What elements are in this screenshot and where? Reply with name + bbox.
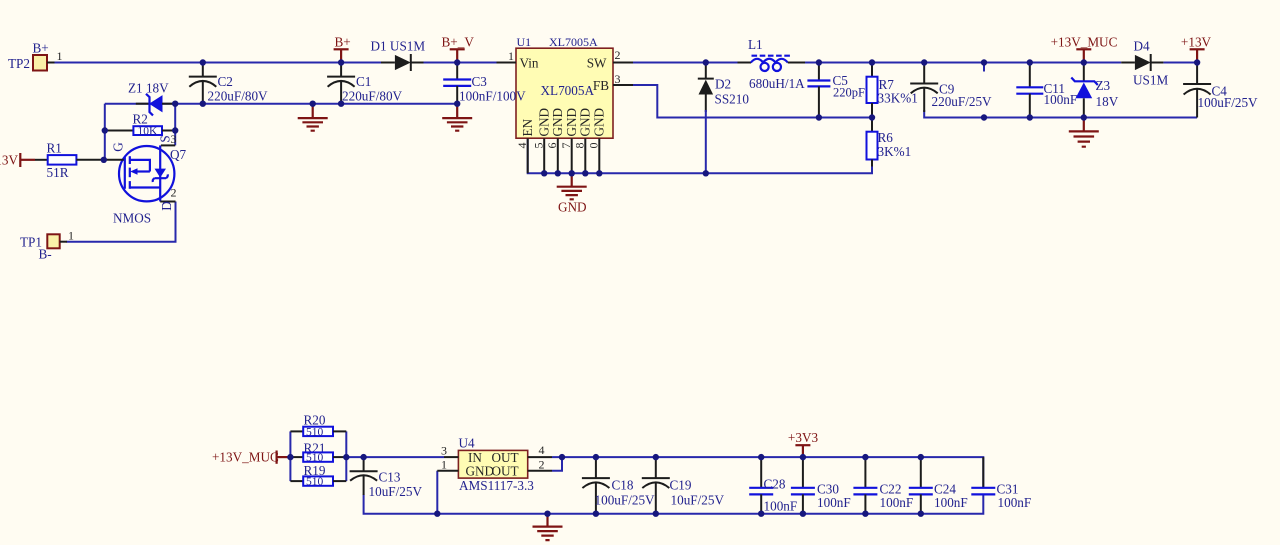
svg-text:0: 0 bbox=[587, 143, 601, 149]
wire: S net vertical Z1 junction to R2 to S pin bbox=[174, 104, 176, 146]
svg-text:100nF: 100nF bbox=[934, 495, 968, 510]
junction (818.9,62.5) bbox=[816, 59, 822, 65]
svg-text:C28: C28 bbox=[764, 477, 786, 492]
resistor R19 bbox=[290, 463, 346, 488]
test point TP1 bbox=[20, 229, 74, 262]
junction (802.9,513.7) bbox=[800, 511, 806, 517]
svg-text:R20: R20 bbox=[304, 413, 326, 428]
zener diode Z3 bbox=[1071, 63, 1118, 118]
svg-text:C3: C3 bbox=[472, 74, 488, 89]
svg-text:R6: R6 bbox=[878, 130, 894, 145]
op-amp U1 XL7005A body bbox=[516, 35, 613, 138]
pin 2 SW bbox=[613, 48, 633, 63]
svg-text:Z3: Z3 bbox=[1096, 78, 1111, 93]
junction (341.1,103.7) bbox=[338, 101, 344, 107]
wire: U4 OUT pin2 up bbox=[552, 457, 562, 471]
junction (802.9,457.1) bbox=[800, 454, 806, 460]
junction (920.8,513.7) bbox=[918, 511, 924, 517]
junction (363.6,457.1) bbox=[360, 454, 366, 460]
zener diode Z1 bbox=[128, 81, 175, 116]
svg-text:8: 8 bbox=[573, 143, 587, 149]
svg-text:1: 1 bbox=[57, 49, 63, 63]
pin 1 Vin bbox=[497, 49, 517, 63]
pin 6 GND bbox=[545, 108, 565, 173]
svg-text:GND: GND bbox=[550, 108, 565, 137]
svg-text:R1: R1 bbox=[47, 141, 62, 156]
svg-text:D4: D4 bbox=[1134, 39, 1151, 54]
junction (202.8,103.7) bbox=[200, 101, 206, 107]
svg-text:51R: 51R bbox=[47, 165, 69, 180]
node stub at x 984 bbox=[983, 63, 985, 72]
junction (1029.8,62.5) bbox=[1027, 59, 1033, 65]
svg-text:100uF/25V: 100uF/25V bbox=[1198, 95, 1259, 110]
junction (705.8,173.3) bbox=[703, 170, 709, 176]
svg-text:D2: D2 bbox=[715, 77, 731, 92]
capacitor C2 bbox=[189, 63, 268, 104]
svg-text:NMOS: NMOS bbox=[113, 211, 151, 226]
junction (865.4,457.1) bbox=[862, 454, 868, 460]
svg-text:100nF: 100nF bbox=[998, 495, 1032, 510]
junction (571.7,173.3) bbox=[569, 170, 575, 176]
junction (175.2,103.7) bbox=[172, 101, 178, 107]
resistor R2 bbox=[105, 112, 175, 138]
svg-text:Z1 18V: Z1 18V bbox=[128, 81, 169, 96]
pin 8 GND bbox=[573, 108, 593, 173]
junction (1197.1,62.5) bbox=[1194, 59, 1200, 65]
pin 1 GND bbox=[437, 458, 458, 472]
wire: U1 ground bus bbox=[528, 138, 872, 173]
svg-text:4: 4 bbox=[515, 143, 529, 149]
node stub dot x984 top bbox=[981, 59, 987, 65]
svg-text:3: 3 bbox=[615, 72, 621, 86]
pin 2 OUT bbox=[528, 458, 552, 472]
wire: U4 OUT to C31 top bus bbox=[552, 457, 983, 488]
resistor R21 bbox=[290, 441, 346, 465]
transistor Q7 NMOS bbox=[104, 132, 187, 226]
junction (872,117.5) bbox=[869, 114, 875, 120]
svg-text:3K%1: 3K%1 bbox=[878, 144, 912, 159]
junction (761.2,513.7) bbox=[758, 511, 764, 517]
junction (761.2,457.1) bbox=[758, 454, 764, 460]
junction (457.2,103.7) bbox=[454, 101, 460, 107]
junction (104.8,130.5) bbox=[102, 127, 108, 133]
svg-text:SW: SW bbox=[587, 56, 607, 71]
svg-text:+13V_MUC: +13V_MUC bbox=[1051, 35, 1118, 50]
svg-text:100nF: 100nF bbox=[1044, 92, 1078, 107]
capacitor C11 bbox=[1016, 63, 1077, 118]
capacitor C18 bbox=[582, 457, 655, 514]
junction (920.8,457.1) bbox=[918, 454, 924, 460]
svg-text:C19: C19 bbox=[670, 478, 692, 493]
junction (547.5,513.7) bbox=[544, 511, 550, 517]
svg-text:7: 7 bbox=[559, 143, 573, 149]
wire: left vertical from Z1 to gate junction bbox=[104, 104, 106, 160]
node dot x984 bottom bbox=[981, 114, 987, 120]
wire row B: B- net C2/C1/C3 bottom bbox=[105, 103, 457, 105]
svg-text:C2: C2 bbox=[218, 74, 233, 89]
diode D4 US1M bbox=[1121, 39, 1168, 88]
junction (1029.8,117.5) bbox=[1027, 114, 1033, 120]
power flag +13V bbox=[1181, 35, 1212, 63]
capacitor C4 bbox=[1183, 63, 1258, 118]
svg-text:1: 1 bbox=[441, 458, 447, 472]
svg-text:+13V_MUC: +13V_MUC bbox=[212, 450, 279, 465]
pin 0 GND bbox=[587, 108, 607, 173]
svg-text:XL7005A: XL7005A bbox=[549, 35, 598, 49]
svg-text:OUT: OUT bbox=[492, 463, 519, 478]
svg-text:10K: 10K bbox=[138, 126, 159, 138]
junction (818.9,117.5) bbox=[816, 114, 822, 120]
wire: U4 GND pin drop bbox=[436, 471, 438, 514]
capacitor C28 bbox=[749, 457, 797, 514]
ground (under C3) bbox=[442, 104, 472, 131]
junction (437.3,513.7) bbox=[434, 511, 440, 517]
svg-text:220uF/25V: 220uF/25V bbox=[932, 94, 993, 109]
svg-text:B+: B+ bbox=[335, 35, 351, 50]
capacitor C30 bbox=[791, 457, 851, 514]
junction (341.1,62.5) bbox=[338, 59, 344, 65]
svg-text:R2: R2 bbox=[133, 112, 148, 127]
junction (175.2,130.5) bbox=[172, 127, 178, 133]
pin 4 EN bbox=[515, 118, 535, 173]
wire: D net from Q7 drain to TP1 bbox=[67, 202, 176, 242]
power flag +3V3 bbox=[788, 430, 819, 457]
svg-text:SS210: SS210 bbox=[715, 92, 750, 107]
svg-text:3: 3 bbox=[171, 132, 177, 146]
svg-text:B+_V: B+_V bbox=[442, 35, 475, 50]
svg-text:GND: GND bbox=[466, 463, 495, 478]
wire: +13V_MUC row to U4 IN bbox=[346, 456, 444, 458]
capacitor C3 bbox=[443, 63, 487, 104]
svg-text:U4: U4 bbox=[459, 436, 476, 451]
capacitor C24 bbox=[909, 457, 968, 514]
resistor R6 bbox=[867, 118, 912, 167]
resistor R1 bbox=[47, 141, 104, 181]
svg-text:TP2: TP2 bbox=[8, 56, 30, 71]
test point TP2 bbox=[8, 41, 63, 72]
svg-text:510: 510 bbox=[306, 427, 324, 439]
junction (1083.8,117.5) bbox=[1081, 114, 1087, 120]
svg-text:10uF/25V: 10uF/25V bbox=[671, 493, 725, 508]
svg-text:510: 510 bbox=[306, 476, 324, 488]
wire: GND right bus C9 to C4 bbox=[924, 110, 1197, 118]
svg-text:B-: B- bbox=[39, 247, 52, 262]
svg-text:L1: L1 bbox=[748, 37, 763, 52]
power port +13V_MUC (bottom) bbox=[212, 450, 290, 465]
svg-text:3: 3 bbox=[441, 444, 447, 458]
svg-text:4: 4 bbox=[539, 443, 545, 457]
svg-text:220pF: 220pF bbox=[833, 86, 865, 100]
svg-text:D: D bbox=[159, 201, 174, 211]
pin 3 FB bbox=[613, 72, 633, 86]
svg-text:+13V: +13V bbox=[0, 153, 18, 168]
svg-text:680uH/1A: 680uH/1A bbox=[749, 76, 805, 91]
junction (103.8,159.8) bbox=[101, 157, 107, 163]
svg-text:1: 1 bbox=[508, 49, 514, 63]
junction (544.2,173.3) bbox=[541, 170, 547, 176]
junction (585.3,173.3) bbox=[582, 170, 588, 176]
svg-text:100nF: 100nF bbox=[817, 495, 851, 510]
capacitor C31 bbox=[971, 457, 1031, 510]
svg-text:Q7: Q7 bbox=[170, 147, 187, 162]
junction (655.8,457.1) bbox=[653, 454, 659, 460]
pin 5 GND bbox=[531, 108, 551, 173]
junction (595.9,457.1) bbox=[593, 454, 599, 460]
svg-text:+3V3: +3V3 bbox=[788, 430, 819, 445]
capacitor C9 bbox=[910, 63, 992, 113]
capacitor C22 bbox=[853, 457, 913, 514]
junction (655.8,513.7) bbox=[653, 511, 659, 517]
svg-text:100nF: 100nF bbox=[880, 495, 914, 510]
junction (705.8,62.5) bbox=[703, 59, 709, 65]
svg-text:+13V: +13V bbox=[1181, 35, 1212, 50]
wire row A: SW net from U1 SW pin to L1 bbox=[633, 62, 738, 64]
junction (562,457.1) bbox=[559, 454, 565, 460]
diode D1 US1M bbox=[371, 39, 426, 72]
svg-text:6: 6 bbox=[545, 143, 559, 149]
svg-text:2: 2 bbox=[615, 48, 621, 62]
ground (row B, x 313) bbox=[298, 104, 328, 131]
ground GND (under U1) bbox=[557, 173, 587, 214]
svg-text:100nF: 100nF bbox=[764, 499, 798, 514]
svg-text:10uF/25V: 10uF/25V bbox=[369, 484, 423, 499]
resistor R7 bbox=[867, 63, 918, 118]
junction (312.7,103.7) bbox=[310, 101, 316, 107]
wire row A: B+ net from TP2 to D1 bbox=[54, 62, 381, 64]
svg-text:2: 2 bbox=[539, 458, 545, 472]
junction (924.2,62.5) bbox=[921, 59, 927, 65]
junction (872,62.5) bbox=[869, 59, 875, 65]
ground (bottom bus) bbox=[533, 514, 563, 540]
svg-text:D1 US1M: D1 US1M bbox=[371, 39, 426, 54]
svg-text:220uF/80V: 220uF/80V bbox=[342, 89, 403, 104]
junction (599.3,173.3) bbox=[596, 170, 602, 176]
power flag B+ bbox=[334, 35, 351, 63]
junction (457.2,62.5) bbox=[454, 59, 460, 65]
svg-text:C18: C18 bbox=[612, 478, 634, 493]
junction (595.9,513.7) bbox=[593, 511, 599, 517]
svg-text:18V: 18V bbox=[1096, 94, 1119, 109]
junction dots top section bbox=[200, 59, 206, 65]
junction (557.8,173.3) bbox=[555, 170, 561, 176]
svg-text:C1: C1 bbox=[356, 74, 371, 89]
wire row A: VOUT net from L1 to D4 anode bbox=[791, 62, 1122, 64]
pin 7 GND bbox=[559, 108, 579, 173]
svg-text:XL7005A: XL7005A bbox=[541, 83, 595, 98]
ground (under Z3) bbox=[1069, 118, 1099, 147]
svg-text:1: 1 bbox=[68, 229, 74, 243]
capacitor C5 bbox=[807, 63, 865, 118]
junction dots bottom section bbox=[287, 454, 293, 460]
svg-text:GND: GND bbox=[578, 108, 593, 137]
power flag +13V_MUC bbox=[1051, 35, 1118, 63]
power port +13V (left edge, clipped) bbox=[0, 153, 48, 168]
svg-text:C13: C13 bbox=[379, 470, 401, 485]
op-amp U4 AMS1117-3.3 body bbox=[458, 436, 534, 494]
inductor L1 bbox=[738, 37, 806, 91]
wire: bottom ground bus bbox=[364, 494, 984, 513]
power flag B+_V bbox=[442, 35, 475, 63]
svg-text:Vin: Vin bbox=[520, 56, 539, 71]
pin 4 OUT bbox=[528, 443, 552, 457]
svg-text:GND: GND bbox=[558, 200, 587, 215]
capacitor C19 bbox=[642, 457, 725, 514]
wire row A: +13V net from D4 cathode to C4 bbox=[1163, 62, 1197, 64]
junction (865.4,513.7) bbox=[862, 511, 868, 517]
diode D2 SS210 bbox=[698, 63, 750, 174]
wire: FB net from U1 FB pin to divider bbox=[633, 85, 872, 118]
svg-text:U1: U1 bbox=[517, 35, 532, 49]
svg-text:AMS1117-3.3: AMS1117-3.3 bbox=[459, 478, 534, 493]
pin 3 IN bbox=[441, 444, 458, 458]
resistor R20 bbox=[290, 413, 346, 439]
wire: resistor bank right vertical bbox=[345, 431, 347, 481]
junction (346.3,457.1) bbox=[343, 454, 349, 460]
capacitor C13 bbox=[350, 457, 423, 499]
svg-text:US1M: US1M bbox=[1133, 73, 1168, 88]
svg-text:EN: EN bbox=[520, 118, 535, 136]
svg-text:G: G bbox=[111, 142, 126, 152]
svg-text:GND: GND bbox=[592, 108, 607, 137]
svg-text:220uF/80V: 220uF/80V bbox=[208, 89, 269, 104]
svg-text:100nF/100V: 100nF/100V bbox=[459, 89, 526, 104]
svg-text:100uF/25V: 100uF/25V bbox=[595, 493, 656, 508]
svg-text:5: 5 bbox=[531, 143, 545, 149]
wire: resistor bank left vertical bbox=[289, 431, 291, 481]
wire row A: B+_V net from D1 to U1 Vin bbox=[424, 62, 497, 64]
capacitor C1 bbox=[327, 63, 402, 104]
svg-text:2: 2 bbox=[171, 186, 177, 200]
junction (1083.8,62.5) bbox=[1081, 59, 1087, 65]
svg-text:B+: B+ bbox=[33, 41, 49, 56]
svg-text:FB: FB bbox=[593, 78, 609, 93]
